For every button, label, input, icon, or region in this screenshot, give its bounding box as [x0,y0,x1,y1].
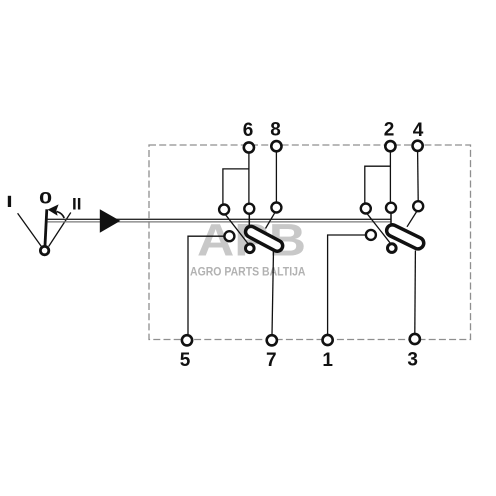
svg-text:5: 5 [180,350,191,371]
wire terminal 7 [272,250,274,335]
switch 2 lower contact circle [388,244,397,253]
switch 2 contact wire diagonal right [407,212,417,227]
svg-text:6: 6 [243,120,254,141]
terminal 6 [243,120,254,153]
switch 1 contact circle middle [244,204,254,214]
switch 1 side contact circle [224,231,234,241]
switch 1 lower contact circle [246,244,255,253]
switch 1 contact circle left [219,205,229,215]
switch 2 contact wire diagonal left [367,214,390,243]
switch 2 contact circle middle [386,203,396,213]
lever position line II [49,213,71,247]
wire terminal 4 [417,151,420,201]
switch 2 contact wire middle [390,213,392,225]
svg-text:1: 1 [322,350,333,371]
svg-text:3: 3 [407,350,418,371]
shaft arrow [100,209,121,233]
label I [8,196,11,207]
switch 1 bridge contact [244,224,285,253]
svg-text:II: II [72,195,81,214]
shaft upper line [48,218,392,220]
svg-text:AGRO PARTS BALTIJA: AGRO PARTS BALTIJA [190,265,306,279]
wire terminal 1 [328,235,366,335]
terminal 2 [384,120,396,152]
lever position line I [18,213,42,246]
wire terminal 3 [414,251,417,335]
svg-text:2: 2 [384,120,395,141]
terminal 1 [322,335,333,371]
svg-text:8: 8 [270,119,281,140]
watermark APB logo [190,215,306,279]
switch 1 contact wire middle [248,214,250,228]
lever (position 0) [45,209,47,245]
wire terminal 8 [275,152,277,203]
terminal 4 [413,120,424,151]
pivot circle [40,246,48,254]
terminal 8 [270,119,281,151]
switch 1 contact wire diagonal left [226,215,248,244]
rotation arrow [48,204,65,218]
svg-text:7: 7 [266,350,277,371]
switch 1 contact circle right [271,203,281,213]
switch 2 bridge contact [385,223,426,251]
svg-text:4: 4 [413,120,424,141]
switch 2 contact circle left [361,204,371,214]
switch 2 contact circle right [413,201,423,211]
svg-text:0: 0 [39,189,52,208]
shaft lower line [48,221,392,223]
terminal 7 [266,335,277,371]
wire terminal 2 to contacts [365,152,391,204]
terminal 5 [180,335,192,371]
terminal 3 [407,334,419,371]
wire terminal 5 [188,236,224,335]
switch 1 contact wire diagonal right [266,213,275,229]
wire terminal 6 to contacts [223,153,249,205]
switch 2 side contact circle [366,230,376,240]
switch body dashed outline [149,145,471,340]
